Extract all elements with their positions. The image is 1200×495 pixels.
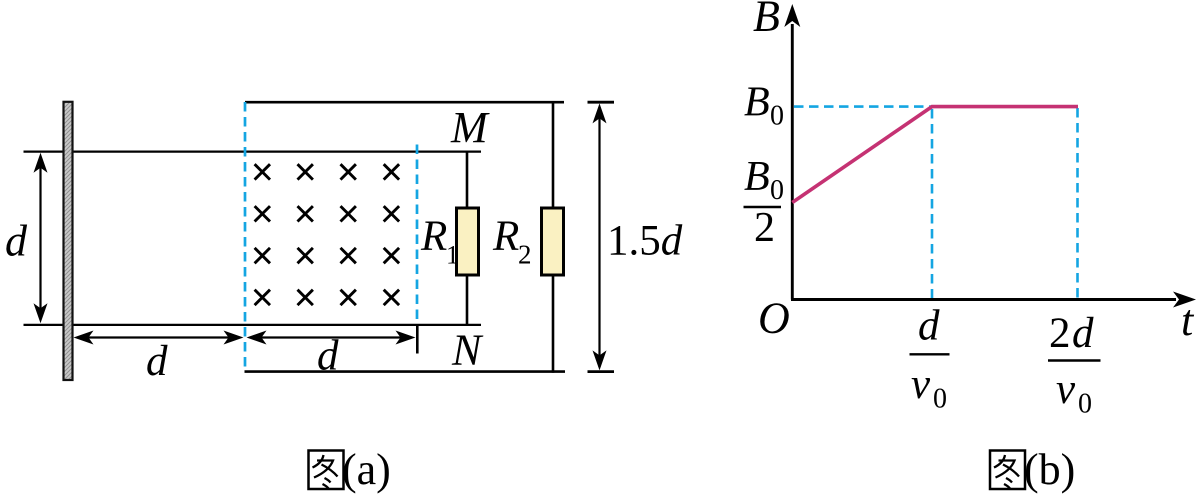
conducting rod <box>64 102 73 380</box>
svg-text:R: R <box>492 213 519 260</box>
wire outer bottom <box>245 370 566 373</box>
dimension arrow d horizontal 2 (field width) <box>247 331 416 345</box>
svg-text:N: N <box>451 326 484 375</box>
svg-text:(a): (a) <box>342 445 391 494</box>
svg-text:d: d <box>317 333 339 380</box>
svg-text:R: R <box>420 213 447 260</box>
field boundary right (dashed) <box>416 145 419 324</box>
dimension arrow d horizontal 1 (rod to field) <box>74 331 244 345</box>
svg-text:(b): (b) <box>1024 445 1075 494</box>
svg-text:d: d <box>146 338 168 385</box>
label 2d/v0 fraction <box>1048 310 1101 420</box>
B(t) curve <box>792 107 1078 203</box>
svg-text:0: 0 <box>933 384 947 415</box>
svg-text:v: v <box>1056 366 1076 413</box>
label d/v0 fraction <box>910 303 950 415</box>
dashed guide B0 horizontal <box>794 105 931 108</box>
B-field crosses (4x4) <box>255 164 400 305</box>
svg-text:B: B <box>744 154 770 200</box>
dashed guide t=d/v0 vertical <box>931 109 934 298</box>
drawn hanzi TU (图) <box>309 451 344 490</box>
wire R2 branch <box>552 101 555 373</box>
svg-text:2: 2 <box>754 205 775 251</box>
dimension arrow d vertical left <box>34 153 48 323</box>
rail M <box>24 150 482 152</box>
tick mark below rail N at field edge <box>416 326 419 354</box>
dashed guide t=2d/v0 vertical <box>1076 108 1079 298</box>
svg-text:1: 1 <box>446 241 459 270</box>
resistor R2 <box>542 208 564 275</box>
svg-text:2: 2 <box>518 240 532 270</box>
rail N <box>24 324 482 326</box>
field boundary left (dashed) <box>244 102 247 371</box>
svg-text:0: 0 <box>1078 389 1092 420</box>
label B0/2 fraction <box>744 154 785 251</box>
svg-text:t: t <box>1181 296 1195 345</box>
svg-text:2: 2 <box>1049 310 1071 357</box>
svg-text:d: d <box>5 217 28 266</box>
svg-text:0: 0 <box>770 175 784 206</box>
wire outer top <box>245 101 564 104</box>
svg-text:1.5d: 1.5d <box>607 218 683 265</box>
svg-text:d: d <box>1072 310 1094 357</box>
svg-text:B: B <box>744 80 770 126</box>
wire R1 branch <box>466 152 469 325</box>
y axis <box>784 4 800 300</box>
resistor R1 <box>457 208 479 275</box>
caption 图(a) <box>309 445 391 494</box>
drawn hanzi TU (图) <box>990 451 1025 490</box>
svg-text:0: 0 <box>770 101 784 132</box>
dimension arrow 1.5d <box>588 102 615 371</box>
svg-text:M: M <box>450 103 490 152</box>
svg-text:O: O <box>758 294 790 343</box>
caption 图(b) <box>990 445 1075 494</box>
svg-text:B: B <box>753 0 780 41</box>
svg-text:v: v <box>911 361 931 408</box>
x axis <box>791 292 1196 308</box>
svg-text:d: d <box>918 303 940 350</box>
